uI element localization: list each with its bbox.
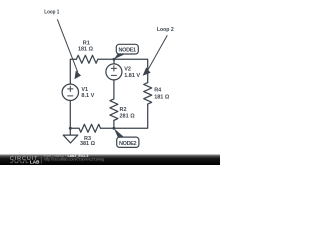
- voltage source V1: [62, 84, 78, 100]
- wire bottom-left: [70, 127, 79, 129]
- NODE2 label wedge: [114, 128, 124, 137]
- svg-text:http://circuitlab.com/c7sbnmc3: http://circuitlab.com/c7sbnmc37zw6g: [44, 158, 104, 162]
- svg-text:Loop 2: Loop 2: [157, 27, 174, 33]
- wire V2 top lead: [113, 59, 115, 64]
- svg-text:V2: V2: [124, 67, 131, 73]
- svg-text:181 Ω: 181 Ω: [154, 95, 170, 101]
- watermark bar: [0, 154, 220, 165]
- NODE1 label wedge: [114, 54, 126, 59]
- wire R2 to bottom: [113, 120, 115, 128]
- resistor R3: [79, 124, 100, 132]
- voltage source V2: [106, 64, 122, 80]
- node dot ground junction: [69, 127, 72, 130]
- wire bottom-right corner: [114, 104, 148, 128]
- svg-text:LAB: LAB: [30, 160, 40, 165]
- svg-text:R4: R4: [154, 88, 162, 94]
- Loop 1 arrow line: [57, 19, 78, 72]
- Loop 1 arrowhead: [75, 71, 82, 80]
- svg-text:NODE1: NODE1: [119, 48, 137, 54]
- ground: [63, 128, 78, 143]
- svg-text:R2: R2: [120, 107, 127, 113]
- Loop 2 arrow line: [148, 35, 168, 70]
- svg-text:8.1 V: 8.1 V: [81, 93, 94, 99]
- wire V2 to R2: [113, 80, 115, 99]
- NODE2 label box: [117, 137, 139, 147]
- bar separator: [40, 156, 42, 164]
- svg-text:281 Ω: 281 Ω: [120, 114, 136, 120]
- node dot top (NODE1): [113, 58, 116, 61]
- svg-text:381 Ω: 381 Ω: [80, 141, 96, 147]
- node dot bottom (NODE2): [112, 127, 115, 130]
- svg-text:181 Ω: 181 Ω: [78, 46, 94, 52]
- wire top-right corner: [98, 59, 148, 82]
- wire bottom middle: [101, 127, 115, 129]
- svg-text:1.81 V: 1.81 V: [124, 73, 140, 79]
- Loop 2 arrowhead: [143, 67, 151, 75]
- NODE1 label box: [116, 44, 138, 54]
- wire V1 bottom lead: [69, 101, 71, 129]
- resistor R1: [76, 55, 97, 63]
- svg-text:NODE2: NODE2: [119, 141, 137, 147]
- wire top-left corner: [70, 59, 76, 84]
- resistor R2: [110, 99, 118, 120]
- svg-text:Loop 1: Loop 1: [44, 10, 59, 16]
- svg-text:V1: V1: [81, 87, 88, 93]
- logo waveform: [10, 161, 28, 163]
- resistor R4: [144, 83, 152, 104]
